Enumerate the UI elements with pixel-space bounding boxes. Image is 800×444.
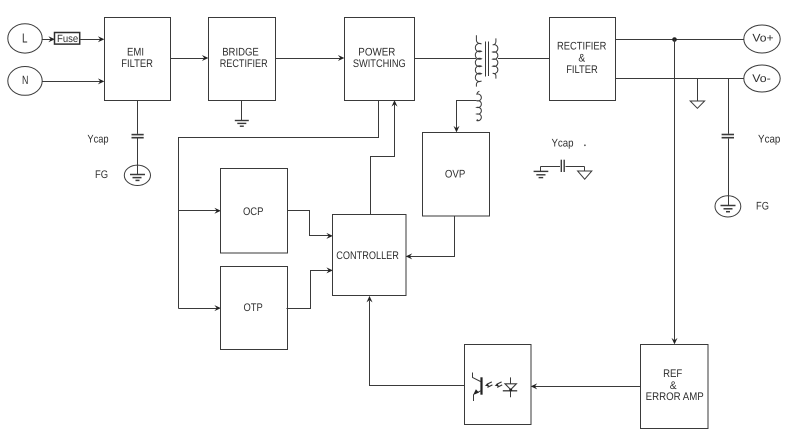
block OVP — [423, 133, 490, 217]
block POWER SWITCHING — [345, 18, 415, 101]
optocoupler LED — [503, 377, 517, 397]
block CONTROLLER — [333, 215, 407, 296]
signal ground below Vo- line — [690, 79, 704, 109]
capacitor Ycap (right) — [722, 79, 734, 197]
transformer T1 primary winding — [475, 35, 481, 86]
svg-text:L: L — [22, 31, 28, 46]
wire EMI filter to bridge rectifier — [170, 55, 208, 61]
block OCP — [221, 169, 288, 254]
wire Vo+ junction down to REF & ERROR AMP — [672, 40, 678, 345]
svg-text:CONTROLLER: CONTROLLER — [336, 250, 399, 262]
optocoupler phototransistor — [473, 373, 482, 402]
stray dot mark — [584, 144, 586, 146]
terminal Vo+ — [744, 25, 780, 53]
wire OTP to controller — [287, 267, 333, 308]
wire OVP to controller — [406, 216, 455, 260]
svg-text:Ycap: Ycap — [87, 134, 108, 146]
wire bridge rectifier to power switching — [275, 55, 344, 61]
svg-text:FG: FG — [95, 169, 108, 181]
wire power switching feedback down and left to OCP/OTP — [179, 101, 379, 309]
svg-text:RECTIFIER: RECTIFIER — [557, 40, 606, 52]
wire N to EMI filter — [42, 78, 104, 84]
transformer T1 secondary winding — [493, 38, 498, 78]
svg-text:BRIDGE: BRIDGE — [222, 46, 259, 58]
svg-text:OVP: OVP — [445, 169, 465, 181]
capacitor Ycap (left) — [132, 100, 144, 165]
terminal Vo- — [744, 65, 780, 92]
wire branch into OTP — [179, 305, 221, 311]
block OTP — [221, 267, 288, 350]
wire transformer secondary to rectifier & filter — [498, 58, 549, 60]
block BRIDGE RECTIFIER — [209, 18, 276, 101]
svg-text:FILTER: FILTER — [566, 64, 598, 76]
svg-text:FILTER: FILTER — [121, 58, 153, 70]
wire OCP to controller — [288, 211, 333, 239]
transformer T1 core — [486, 42, 489, 77]
wire aux winding to OVP — [454, 101, 477, 133]
wire Vo- output line — [615, 78, 744, 80]
terminal L — [8, 24, 42, 53]
wire controller to power switching — [371, 100, 398, 214]
block RECTIFIER & FILTER — [550, 18, 616, 101]
terminal N — [8, 67, 42, 96]
svg-text:Ycap: Ycap — [758, 134, 780, 146]
svg-text:N: N — [22, 73, 28, 87]
optocoupler U1 box — [465, 345, 532, 425]
junction node on Vo+ line — [672, 37, 677, 42]
wire REF & ERROR AMP to optocoupler — [531, 383, 640, 389]
svg-text:Ycap: Ycap — [551, 137, 573, 149]
wire optocoupler to controller — [367, 296, 465, 386]
block REF & ERROR AMP — [641, 345, 709, 429]
block EMI FILTER — [105, 18, 171, 101]
svg-text:EMI: EMI — [127, 46, 144, 58]
wire fuse to EMI filter — [81, 36, 105, 42]
chassis ground FG (right) — [715, 196, 741, 217]
svg-text:OTP: OTP — [243, 302, 262, 314]
svg-text:Fuse: Fuse — [57, 33, 78, 45]
svg-text:FG: FG — [756, 200, 769, 212]
svg-text:RECTIFIER: RECTIFIER — [220, 58, 268, 70]
svg-text:Vo+: Vo+ — [752, 33, 773, 45]
wire Vo+ output line — [615, 39, 744, 41]
svg-text:&: & — [578, 52, 585, 64]
optocoupler light arrows — [485, 382, 502, 388]
svg-text:POWER: POWER — [358, 47, 395, 59]
wire L to fuse — [42, 36, 55, 42]
wire power switching to transformer primary — [414, 58, 476, 60]
fuse F1 — [55, 33, 80, 46]
transformer auxiliary winding — [477, 91, 481, 121]
svg-text:ERROR AMP: ERROR AMP — [646, 391, 704, 403]
chassis ground FG (left) — [124, 165, 150, 185]
wire branch into OCP — [179, 208, 221, 214]
svg-text:REF: REF — [663, 368, 682, 380]
svg-text:Vo-: Vo- — [752, 73, 771, 85]
svg-text:SWITCHING: SWITCHING — [353, 58, 406, 70]
ground (earth) under bridge rectifier — [235, 100, 249, 126]
svg-text:OCP: OCP — [243, 206, 264, 218]
capacitor Ycap (middle) with grounds — [534, 160, 592, 180]
